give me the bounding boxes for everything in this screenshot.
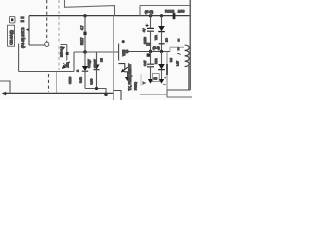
svg-text:100: 100 [178,9,185,14]
svg-text:2: 2 [177,47,179,51]
tiny text right of icon [21,17,24,18]
svg-text:0.22: 0.22 [78,77,82,83]
svg-text:0.50: 0.50 [90,78,94,84]
svg-text:FREQ: FREQ [133,81,137,90]
plus mark [145,24,148,27]
wire: vertical x=18.6 [18,44,20,72]
board boundary dashed line B (upper) [58,0,60,70]
wire: vertical x=74 down to y=71.5 [73,52,75,72]
wire: horizontal y=88.5 collector [85,89,106,94]
wire: stub from dashed B to transistor Q x=67 [61,45,67,61]
blob below wire [147,53,150,56]
node dot at top of VR [122,40,125,43]
svg-text:5: 5 [178,39,180,43]
wire: horizontal y=52 (left block) [74,51,119,53]
board boundary dashed line A (lower) [48,74,50,92]
svg-text:R12: R12 [154,58,158,64]
svg-text:4V: 4V [142,28,146,32]
svg-text:Y: Y [142,82,146,84]
board boundary dashed line A (upper) [46,0,48,42]
junction blob on x=67 [66,52,69,55]
board boundary dashed line B (lower) [56,72,58,93]
connector circle on dashed line A [45,42,49,46]
wire: top feeder left (corner up at x=64.5) [65,0,115,16]
wire: corner x=96.5 from y52 [96,52,98,65]
boxed label between grounds [152,74,159,82]
wire: vertical x=85 from bus to y=52 [84,16,86,52]
wire: corner x=113.5 to x=121 at y=90.5 [114,91,122,101]
wire: left input corner x=29 [29,16,45,45]
wire faint stub x=141 [140,74,142,86]
node: junction dot (106,93.5) [104,92,108,96]
right page border [189,0,191,90]
svg-text:0.0: 0.0 [169,58,173,62]
connector icon top-left [9,16,15,23]
inductor L coil [185,45,190,67]
svg-text:C47: C47 [143,60,147,66]
wire: horizontal y=51.5 right block [128,51,170,53]
node: junction dot (96.5,88.5) [95,87,98,90]
svg-text:C5: C5 [100,58,104,62]
ground arrow left [148,79,153,84]
diode D (x=85) filled triangle down [84,52,86,66]
component mark on x=85 (polarity blob) [83,32,86,35]
svg-text:C8: C8 [153,76,157,80]
svg-text:25F: 25F [66,62,70,67]
svg-text:4.7: 4.7 [80,25,84,30]
plus mark near box [164,77,166,79]
label box CN-3A rotated [8,25,15,46]
node: junction dot (150.5,15.8) [149,14,152,17]
wire: horizontal y=71.5 [19,71,74,73]
VR5 body [118,64,124,70]
transistor emitter arrow symbol [62,62,69,69]
wire: box bottom y=90 [167,89,190,91]
svg-text:TX, FREQUENCY: TX, FREQUENCY [128,63,132,91]
svg-text:(5-9): (5-9) [153,46,160,50]
arrowhead left end of bottom bus [2,92,6,96]
dark segment on x=167 [166,64,168,75]
svg-text:L47: L47 [176,61,180,66]
node: junction dot (150.5,51.5) [149,50,152,53]
wire: vertical x=167 (box left) [166,52,168,91]
svg-text:C1247: C1247 [93,59,97,68]
svg-text:C120: C120 [68,76,72,84]
tick left of box edge [163,84,165,86]
wire: long vertical x=113.5 [113,16,115,100]
wire: left bottom corner x=10 [0,81,10,94]
wire: bottom bus y=93.5 [3,92,114,94]
svg-text:(P4 40) 2CK B: (P4 40) 2CK B [21,27,25,48]
ground arrow right [159,79,164,84]
svg-text:R56 3.3: R56 3.3 [60,46,64,57]
capacitor below (x=150.5) [150,52,152,64]
diode below (x=161.5) [161,52,163,65]
wire: main horizontal bus y=15.8 [29,15,190,17]
node: junction dot at (85,52) [83,50,87,54]
svg-text:R117: R117 [80,37,84,45]
diode (x=96.5) filled triangle down [96,52,98,65]
wire: top feeder right y=5.5 [140,6,190,16]
svg-text:(5-9): (5-9) [145,9,154,14]
svg-text:WR: WR [154,35,158,40]
node: junction dot on bus at x=85 [83,14,86,17]
node: junction dot (161.5,15.8) [160,14,163,17]
diode D3 (x=161.5) top section [161,16,163,26]
ground below VR5 [124,72,131,78]
potentiometer VR5 vertical x=118.6 [118,44,120,61]
arrowhead pointing at dashed line [61,47,65,50]
svg-text:C110: C110 [143,37,147,44]
wire: lower line y=97 [167,90,192,97]
VR5 wiper arrow [121,67,127,72]
wire: faint bottom continuation [140,94,167,96]
wire: coil bottom down x=188.5 [188,66,190,90]
capacitor C (x=150.5) top section [150,13,152,29]
svg-text:15: 15 [88,60,92,64]
arrow on left input wire [26,28,29,31]
up stub at end of y=51.5 wire [170,47,184,51]
svg-text:CN-3A(1): CN-3A(1) [10,30,14,45]
node: junction dot (161.5,51.5) [160,50,163,53]
bead component on bus at x=174 [173,13,176,19]
